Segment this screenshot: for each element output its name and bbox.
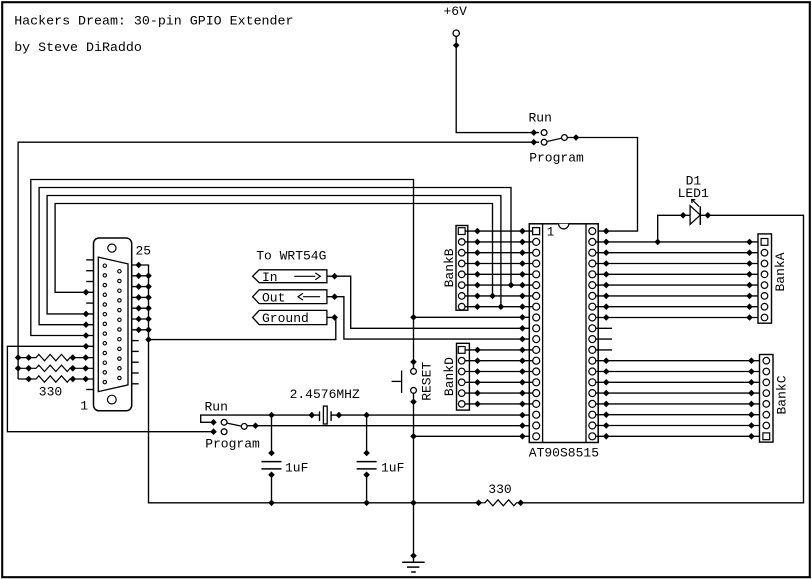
switch S2 pole — [227, 423, 247, 429]
resistor R3 330 to J1 — [18, 365, 94, 372]
label BankA — [773, 252, 788, 291]
label D1 — [686, 174, 702, 189]
connector J1 DB25 — [94, 238, 132, 411]
svg-text:330: 330 — [488, 482, 511, 497]
author text — [14, 40, 142, 55]
svg-text:Program: Program — [205, 436, 260, 451]
resistor R2 330 to J1 — [18, 354, 94, 361]
connector BankB header — [456, 226, 468, 311]
wire DB25 pin row7-left to BankB pin6 drop — [39, 188, 514, 329]
wire DB25 pin row4-left to BankB pin7 drop — [55, 204, 496, 300]
svg-text:25: 25 — [135, 244, 151, 259]
label pin 25 of J1 — [135, 244, 151, 259]
capacitor C2 1uF — [357, 415, 377, 503]
wires BankB pins 1-8 to U1 pins 1-8 — [465, 228, 532, 310]
resistor R5 330 in ground rail — [479, 500, 524, 507]
unconnected stub pins J1 left side — [86, 260, 93, 390]
svg-text:In: In — [262, 270, 278, 285]
wire DB25 pin row6-left to BankB pin8 drop — [47, 196, 504, 318]
switch S1 Program contact — [541, 139, 547, 145]
wires U1 right pins 29-21 to BankC — [596, 357, 760, 439]
svg-text:AT90S8515: AT90S8515 — [529, 446, 599, 461]
label BankD — [442, 357, 457, 396]
wire Out to IC pin 11 TXD — [327, 293, 533, 342]
connector BankC header — [760, 355, 774, 443]
wire RESET net to IC pin 9 — [414, 314, 533, 321]
wires BankD pins to U1 pins 12-17 — [465, 347, 532, 408]
svg-text:Run: Run — [204, 400, 227, 415]
svg-text:by Steve DiRaddo: by Steve DiRaddo — [14, 40, 142, 55]
svg-text:Out: Out — [262, 290, 285, 305]
node In (to WRT54G) pennant — [253, 270, 327, 285]
node Out (to WRT54G) pennant — [253, 290, 327, 306]
switch S2 Program contact — [221, 429, 227, 435]
wire DB25 pin row9-left to S2 Program contact — [7, 343, 216, 435]
resistor R4 330 to J1 — [18, 376, 94, 383]
label pin 1 of J1 — [80, 399, 88, 414]
svg-text:To WRT54G: To WRT54G — [256, 248, 326, 263]
wires U1 right pins 39-32 to BankA — [596, 239, 758, 321]
power terminal +6V label — [443, 4, 467, 19]
svg-text:Ground: Ground — [262, 311, 309, 326]
connector BankD header — [457, 343, 470, 410]
label BankC — [775, 375, 790, 414]
svg-text:BankB: BankB — [442, 248, 457, 287]
svg-text:Program: Program — [529, 151, 584, 166]
wire crystal to IC pin 18 XTAL2 — [331, 412, 532, 419]
label RESET — [419, 362, 434, 401]
wire IC pin 20 GND to RESET ground net — [414, 433, 533, 440]
switch S1 Run contact — [541, 130, 547, 136]
ground symbol — [402, 552, 424, 572]
label LED1 — [678, 186, 709, 201]
wire Program line: resistor common to S1 Program contact — [15, 139, 539, 379]
wire Ground pennant to ground chain — [149, 314, 338, 340]
svg-text:+6V: +6V — [443, 4, 467, 19]
value label 2.4576MHZ — [290, 387, 360, 402]
switch S1 label Program — [529, 151, 584, 166]
svg-text:1: 1 — [80, 399, 88, 414]
wire +6V to Run contact of switch S1 — [453, 36, 539, 135]
LED D1 — [690, 199, 700, 225]
IC U1 AT90S8515 microcontroller body — [529, 224, 598, 443]
switch S1 label Run — [528, 110, 551, 125]
svg-text:1uF: 1uF — [381, 460, 404, 475]
svg-text:330: 330 — [39, 385, 62, 400]
crystal Y1 2.4576MHZ — [320, 406, 332, 424]
svg-text:LED1: LED1 — [678, 186, 709, 201]
value label 1uF for C1 — [285, 460, 308, 475]
svg-text:BankD: BankD — [442, 357, 457, 396]
capacitor C1 1uF — [262, 415, 282, 503]
power terminal +6V circle — [453, 30, 459, 36]
unconnected stub pins J1 right side rows8-12 — [131, 341, 139, 384]
wire RESET button to ground rail and ground symbol — [410, 393, 417, 562]
switch S2 label Run — [204, 400, 227, 415]
switch S2 Run contact — [221, 419, 227, 425]
wire ground rail to LED cathode via right rail — [521, 212, 804, 503]
wire S1 pole to IC pin 40 (VCC) — [567, 134, 637, 234]
label BankB — [442, 248, 457, 287]
pin 1 label of U1 — [547, 226, 555, 240]
wire In to IC pin 10 RXD — [327, 273, 533, 332]
svg-text:2.4576MHZ: 2.4576MHZ — [290, 387, 360, 402]
wire IC pin 39 to LED anode — [654, 212, 690, 245]
wire S2 pole to IC pin 19 XTAL1 — [247, 422, 532, 429]
wire S2 Run contact to crystal net — [201, 412, 320, 426]
title text — [14, 14, 293, 29]
wire DB25 pin row8-left to RESET net — [31, 180, 417, 369]
svg-text:1: 1 — [547, 226, 555, 240]
value label 1uF for C2 — [381, 460, 404, 475]
svg-text:BankC: BankC — [775, 375, 790, 414]
unconnected stub pins U1 right rows 10-12 — [596, 328, 612, 350]
label AT90S8515 — [529, 446, 599, 461]
svg-text:1uF: 1uF — [285, 460, 308, 475]
switch S2 label Program — [205, 436, 260, 451]
svg-text:RESET: RESET — [419, 362, 434, 401]
switch S1 pole — [547, 135, 567, 142]
pushbutton RESET — [392, 369, 417, 394]
value label 330 for resistor network — [39, 385, 62, 400]
label To WRT54G — [256, 248, 326, 263]
wire J1 ground chain: right row1 down right side to bottom ground rail — [131, 262, 482, 506]
connector BankA header — [758, 234, 772, 323]
value label 330 for R5 — [488, 482, 511, 497]
svg-text:Run: Run — [528, 110, 551, 125]
node Ground (to WRT54G) pennant — [253, 310, 327, 326]
svg-text:Hackers Dream: 30-pin GPIO Ext: Hackers Dream: 30-pin GPIO Extender — [14, 14, 293, 29]
wires J1 right rows2-7 to ground chain — [131, 273, 152, 334]
svg-text:BankA: BankA — [773, 252, 788, 291]
